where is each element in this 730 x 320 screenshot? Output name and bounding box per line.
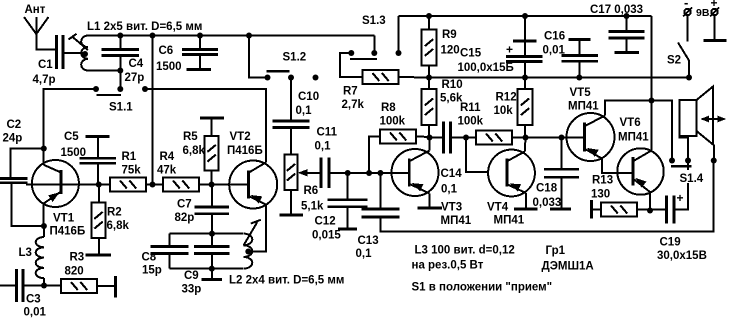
svg-text:VT4: VT4	[487, 202, 509, 214]
svg-text:100,0х15Б: 100,0х15Б	[458, 62, 514, 74]
svg-text:П416Б: П416Б	[227, 145, 263, 157]
svg-text:R2: R2	[107, 207, 122, 219]
svg-text:47k: 47k	[157, 165, 177, 177]
svg-text:C4: C4	[129, 58, 144, 70]
svg-text:120: 120	[441, 45, 460, 57]
svg-text:100k: 100k	[458, 116, 484, 128]
svg-text:6,8k: 6,8k	[107, 220, 130, 232]
svg-text:C17 0,033: C17 0,033	[590, 4, 643, 16]
svg-text:L1 2x5 вит. D=6,5 мм: L1 2x5 вит. D=6,5 мм	[87, 21, 202, 33]
svg-text:C2: C2	[7, 119, 22, 131]
svg-text:R11: R11	[460, 102, 481, 114]
svg-text:0,1: 0,1	[441, 184, 458, 196]
svg-text:-: -	[684, 0, 688, 10]
svg-text:S1.1: S1.1	[109, 102, 133, 114]
svg-text:C9: C9	[184, 270, 199, 282]
svg-text:Гр1: Гр1	[546, 245, 566, 257]
svg-text:L2 2x4 вит. D=6,5 мм: L2 2x4 вит. D=6,5 мм	[229, 275, 344, 287]
svg-text:МП41: МП41	[618, 132, 649, 144]
svg-text:27p: 27p	[125, 72, 145, 84]
svg-text:R7: R7	[343, 86, 358, 98]
svg-text:C8: C8	[142, 252, 157, 264]
svg-text:VT2: VT2	[230, 131, 251, 143]
svg-text:VT6: VT6	[620, 117, 641, 129]
svg-text:33p: 33p	[182, 284, 202, 296]
svg-text:0,1: 0,1	[356, 248, 373, 260]
svg-text:R3: R3	[70, 252, 85, 264]
svg-text:0,1: 0,1	[296, 105, 313, 117]
svg-text:+: +	[677, 191, 684, 205]
svg-text:VT3: VT3	[441, 202, 462, 214]
svg-text:6,8k: 6,8k	[183, 145, 206, 157]
svg-text:30,0х15В: 30,0х15В	[657, 250, 707, 262]
svg-text:+: +	[506, 43, 513, 57]
svg-text:C11: C11	[317, 127, 338, 139]
svg-text:C10: C10	[298, 91, 319, 103]
svg-text:C1: C1	[38, 59, 53, 71]
svg-text:R5: R5	[183, 131, 198, 143]
svg-text:0,1: 0,1	[315, 141, 332, 153]
svg-text:П416Б: П416Б	[50, 226, 86, 238]
svg-text:R8: R8	[381, 102, 396, 114]
svg-text:R4: R4	[160, 151, 175, 163]
svg-text:VT1: VT1	[53, 213, 75, 225]
svg-text:R12: R12	[496, 92, 517, 104]
svg-text:S1.3: S1.3	[362, 15, 386, 27]
svg-text:VT5: VT5	[570, 87, 592, 99]
svg-text:C12: C12	[315, 216, 336, 228]
svg-text:100k: 100k	[380, 116, 406, 128]
svg-text:82p: 82p	[175, 212, 195, 224]
svg-text:0,015: 0,015	[312, 230, 341, 242]
svg-text:S1.4: S1.4	[680, 173, 704, 185]
svg-text:24p: 24p	[3, 133, 23, 145]
svg-text:C7: C7	[177, 199, 192, 211]
svg-text:C6: C6	[159, 45, 174, 57]
svg-text:C5: C5	[64, 131, 79, 143]
svg-text:ДЭМШ1А: ДЭМШ1А	[542, 261, 594, 273]
svg-text:820: 820	[65, 266, 84, 278]
svg-text:130: 130	[591, 189, 610, 201]
svg-text:1500: 1500	[61, 147, 87, 159]
svg-text:R9: R9	[442, 29, 457, 41]
svg-text:15p: 15p	[142, 265, 162, 277]
svg-text:C13: C13	[358, 235, 379, 247]
svg-text:L3 100 вит. d=0,12: L3 100 вит. d=0,12	[415, 245, 515, 257]
svg-text:R10: R10	[442, 79, 463, 91]
svg-text:R13: R13	[592, 175, 613, 187]
svg-text:S1.2: S1.2	[283, 52, 307, 64]
svg-text:75k: 75k	[122, 165, 142, 177]
svg-text:R1: R1	[122, 151, 137, 163]
svg-text:Ант: Ант	[25, 4, 46, 16]
svg-text:C3: C3	[26, 294, 41, 306]
svg-text:МП41: МП41	[441, 215, 472, 227]
svg-text:C16: C16	[544, 31, 565, 43]
svg-text:5,1k: 5,1k	[301, 201, 324, 213]
svg-text:0,033: 0,033	[533, 197, 562, 209]
svg-text:C18: C18	[536, 183, 558, 195]
svg-text:C19: C19	[660, 237, 681, 249]
svg-text:0,01: 0,01	[543, 45, 566, 57]
svg-text:1500: 1500	[156, 61, 182, 73]
svg-text:S1 в положении "прием": S1 в положении "прием"	[412, 282, 553, 294]
svg-text:9В: 9В	[696, 7, 710, 19]
svg-text:+: +	[711, 0, 718, 10]
svg-text:МП41: МП41	[568, 101, 599, 113]
svg-text:R6: R6	[304, 185, 319, 197]
svg-text:МП41: МП41	[494, 215, 525, 227]
svg-text:10k: 10k	[494, 105, 514, 117]
svg-text:на рез.0,5 Вт: на рез.0,5 Вт	[412, 260, 484, 272]
svg-text:0,01: 0,01	[24, 307, 47, 319]
svg-text:2,7k: 2,7k	[342, 99, 365, 111]
svg-text:L3: L3	[19, 247, 32, 259]
svg-text:C15: C15	[460, 48, 482, 60]
svg-text:4,7p: 4,7p	[33, 74, 56, 86]
svg-text:C14: C14	[441, 168, 463, 180]
svg-text:S2: S2	[667, 55, 681, 67]
